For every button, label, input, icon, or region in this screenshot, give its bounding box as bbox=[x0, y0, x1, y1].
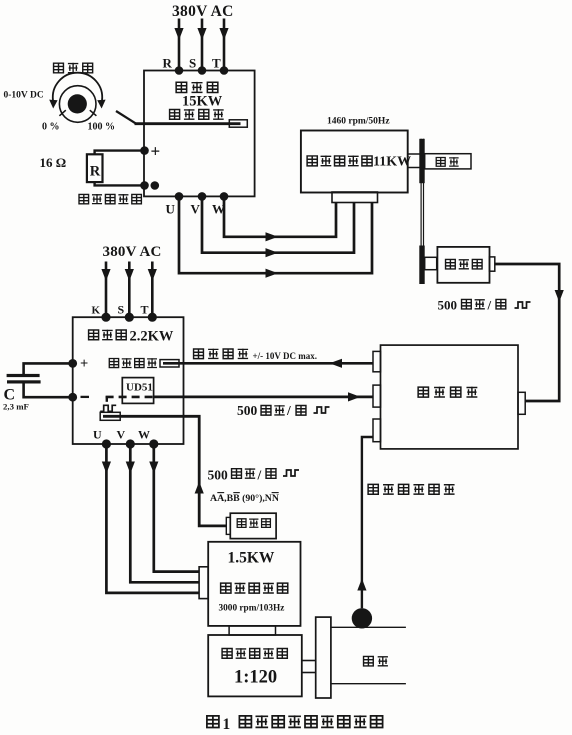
pulley lower bbox=[419, 246, 424, 285]
svg-text:2.2KW: 2.2KW bbox=[130, 329, 174, 345]
node U1-V dot bbox=[198, 192, 207, 201]
motor M1 box 主轴电动机 11KW bbox=[301, 131, 408, 193]
wire reference signal U2 to control unit with left arrow bbox=[163, 359, 373, 368]
svg-text:2,3 mF: 2,3 mF bbox=[3, 402, 29, 412]
label 100 % bbox=[88, 122, 116, 133]
encoder E1 coupling bbox=[425, 257, 437, 269]
resistor R1 (braking resistor) bbox=[87, 154, 103, 182]
control unit left tab 1 bbox=[373, 351, 381, 371]
node R terminal dot bbox=[175, 66, 184, 75]
shaft from M1 to pulley bbox=[408, 154, 425, 168]
motor M2 terminal tab bbox=[199, 567, 208, 599]
label 经轴电动机 bbox=[221, 583, 288, 594]
node U2-V dot bbox=[126, 439, 135, 448]
wire surface speed feedback to control unit with up arrow bbox=[357, 437, 373, 608]
svg-text:S: S bbox=[118, 303, 125, 317]
svg-text:AA,BB (90°),NN: AA,BB (90°),NN bbox=[210, 493, 279, 504]
caption 图1 经编电子送经原理图 bbox=[207, 715, 383, 733]
svg-text:K: K bbox=[92, 305, 101, 317]
pin label + bbox=[151, 142, 161, 161]
pin label W bbox=[212, 202, 225, 217]
wire U1-V to motor M1 with arrow bbox=[202, 196, 354, 257]
svg-text:500: 500 bbox=[208, 468, 229, 483]
label 传动齿轮箱 bbox=[222, 648, 287, 659]
label 经轴 bbox=[364, 656, 388, 666]
wire encoder E2 to U2 with up arrow bbox=[103, 416, 226, 526]
warp beam end flange bbox=[316, 617, 331, 698]
wire U2-U to motor M2 with arrow bbox=[102, 444, 199, 593]
label 控制单元 bbox=[418, 387, 477, 398]
belt line bbox=[421, 139, 423, 284]
svg-text:500: 500 bbox=[438, 298, 458, 313]
svg-text:+/- 10V DC max.: +/- 10V DC max. bbox=[253, 351, 317, 361]
svg-text:+: + bbox=[151, 142, 161, 161]
svg-text:380V AC: 380V AC bbox=[172, 3, 234, 20]
net label 380V AC (second supply) bbox=[103, 244, 162, 260]
label 0 % bbox=[42, 122, 60, 133]
pin label T bbox=[212, 56, 221, 71]
wire R1 top lead to U1 + terminal bbox=[95, 151, 145, 155]
svg-text:1460 rpm/50Hz: 1460 rpm/50Hz bbox=[327, 117, 390, 127]
motor M2 box 1.5KW 经轴电动机 bbox=[208, 542, 300, 626]
svg-text:1:120: 1:120 bbox=[234, 668, 277, 688]
label M1 主轴电动机 11KW bbox=[307, 155, 411, 170]
node U2-W dot bbox=[149, 439, 158, 448]
svg-text:R: R bbox=[163, 56, 173, 71]
label U2 闭环系统 bbox=[109, 358, 157, 368]
label 1:120 bbox=[234, 668, 277, 688]
main shaft label box 主轴 bbox=[425, 154, 471, 169]
svg-text:100 %: 100 % bbox=[88, 122, 116, 133]
label U1 开环系统 bbox=[170, 109, 224, 120]
pin label V (U2) bbox=[117, 428, 126, 442]
pin label V bbox=[191, 202, 201, 217]
pin marker bullet bbox=[151, 181, 160, 190]
inverter U2 box 变频器2.2KW 闭环系统 bbox=[73, 317, 184, 444]
svg-text:W: W bbox=[138, 428, 150, 442]
svg-text:3000 rpm/103Hz: 3000 rpm/103Hz bbox=[219, 604, 285, 614]
svg-text:/: / bbox=[487, 298, 492, 313]
label 0-10V DC bbox=[4, 91, 44, 101]
wire R1 bottom lead to U1 - terminal bbox=[95, 182, 145, 185]
wire U1-U to motor M1 with arrow bbox=[179, 196, 372, 277]
wire phase T into U2 with arrow bbox=[148, 262, 157, 318]
control unit left tab 2 bbox=[373, 385, 381, 407]
wire phase S into U1 with arrow bbox=[197, 19, 206, 71]
node U2-U dot bbox=[102, 439, 111, 448]
U2 encoder input connector bbox=[100, 412, 120, 420]
encoder E2 box 编码器 bbox=[230, 513, 276, 538]
svg-text:UD51: UD51 bbox=[126, 382, 153, 394]
voltmeter inner ring with scale ticks bbox=[59, 86, 96, 123]
label 表面测速反馈 bbox=[368, 484, 454, 495]
svg-text:+: + bbox=[80, 356, 88, 372]
pin label R bbox=[163, 56, 173, 71]
label 制动电阻器 bbox=[79, 194, 141, 204]
inverter U1 box 变频器 15KW 开环系统 bbox=[144, 71, 255, 197]
node U1-U dot bbox=[175, 192, 184, 201]
node T2 terminal dot bbox=[148, 313, 157, 322]
encoder E1 output tab bbox=[490, 257, 495, 271]
svg-text:S: S bbox=[189, 56, 196, 71]
wire phase S into U2 with arrow bbox=[125, 262, 134, 318]
pin label S bbox=[118, 303, 125, 317]
U2 reference connector bbox=[160, 360, 179, 367]
label 1.5KW bbox=[228, 550, 275, 567]
node K terminal dot bbox=[101, 313, 110, 322]
svg-text:V: V bbox=[117, 428, 126, 442]
wire E1 to control unit with down arrow bbox=[495, 264, 564, 401]
svg-text:500: 500 bbox=[237, 403, 258, 418]
wire phase R into U1 with arrow bbox=[174, 19, 183, 71]
motor M1 terminal box tab bbox=[332, 192, 378, 203]
label 基准信号 bbox=[194, 349, 249, 359]
voltmeter knob (filled) bbox=[68, 94, 87, 113]
svg-text:15KW: 15KW bbox=[182, 94, 223, 110]
svg-text:T: T bbox=[141, 303, 149, 317]
control unit left tab 3 bbox=[373, 419, 381, 442]
control unit box 控制单元 bbox=[381, 345, 519, 449]
pin label U (U2) bbox=[93, 428, 102, 442]
node T terminal dot bbox=[220, 66, 229, 75]
label 500脉冲/转 (E1) bbox=[438, 298, 531, 313]
pin label U bbox=[166, 202, 176, 217]
wire pulses to control unit tab2 with right arrow bbox=[154, 392, 373, 401]
wire U1-W to motor M1 with arrow bbox=[224, 196, 336, 241]
pin label S bbox=[189, 56, 196, 71]
svg-text:380V AC: 380V AC bbox=[103, 244, 162, 260]
svg-text:11KW: 11KW bbox=[373, 155, 411, 170]
gearbox output shaft bbox=[302, 661, 316, 673]
label U1 变频器 bbox=[176, 82, 218, 93]
svg-text:0 %: 0 % bbox=[42, 122, 60, 133]
svg-text:/: / bbox=[257, 468, 262, 483]
label 500脉冲/转 (UD51) bbox=[237, 403, 330, 418]
gearbox box 传动齿轮箱 1:120 bbox=[208, 635, 302, 696]
pin label - (U2) bbox=[81, 396, 90, 398]
wire capacitor top lead bbox=[24, 363, 73, 374]
value label 2,3 mF bbox=[3, 402, 29, 412]
svg-text:0-10V DC: 0-10V DC bbox=[4, 91, 44, 101]
voltmeter meter dial arc with end arrows bbox=[49, 73, 105, 109]
wire phase T into U1 with arrow bbox=[219, 19, 228, 71]
coupling M2 to gearbox bbox=[229, 626, 275, 635]
U1 analog speed input connector bbox=[229, 120, 247, 127]
label C bbox=[4, 387, 16, 404]
wire U2-W to motor M2 with arrow bbox=[149, 444, 199, 572]
wire voltmeter output to U1 analog input bbox=[135, 122, 241, 125]
node - terminal dot bbox=[140, 181, 149, 190]
label U2 变频器 2.2KW bbox=[89, 329, 174, 345]
label voltmeter 电压计 bbox=[54, 63, 93, 73]
pin label T bbox=[141, 303, 149, 317]
pulley upper bbox=[419, 139, 424, 183]
node U1-W dot bbox=[220, 192, 229, 201]
svg-text:1: 1 bbox=[223, 716, 231, 733]
svg-text:1.5KW: 1.5KW bbox=[228, 550, 275, 567]
pin label W (U2) bbox=[138, 428, 150, 442]
label 500脉冲/转 (E2) bbox=[208, 468, 300, 483]
control unit right tab bbox=[518, 392, 525, 414]
wire phase K into U2 with arrow bbox=[101, 262, 110, 318]
wire U2-V to motor M2 with arrow bbox=[126, 444, 199, 582]
wire encoder pulses (dashed through UD51) bbox=[106, 396, 154, 402]
node S terminal dot bbox=[198, 66, 207, 75]
pin label K bbox=[92, 305, 101, 317]
U2 encoder input pulse icon bbox=[100, 405, 116, 411]
node U2 - dot bbox=[68, 393, 77, 402]
label 1460 rpm/50Hz bbox=[327, 117, 390, 127]
svg-text:16 Ω: 16 Ω bbox=[40, 155, 67, 170]
surface measuring roller bbox=[352, 608, 372, 628]
node U2 + dot bbox=[68, 359, 77, 368]
encoder E2 input tab bbox=[226, 517, 230, 534]
label +/- 10V DC max. bbox=[253, 351, 317, 361]
warp beam 经轴 outline bbox=[331, 627, 406, 683]
svg-text:R: R bbox=[90, 164, 101, 180]
wire capacitor bottom lead bbox=[24, 384, 73, 398]
voltmeter needle / pointer wire bbox=[116, 111, 136, 123]
svg-text:/: / bbox=[286, 403, 291, 418]
pin label + (U2) bbox=[80, 356, 88, 372]
svg-text:T: T bbox=[212, 56, 221, 71]
node S2 terminal dot bbox=[125, 313, 134, 322]
net label 380V AC (top supply) bbox=[172, 3, 234, 20]
encoder E1 box 编码器 bbox=[437, 247, 489, 283]
capacitor C1 plates bbox=[7, 374, 41, 384]
svg-text:U: U bbox=[93, 428, 102, 442]
node + terminal dot bbox=[140, 146, 149, 155]
label 3000 rpm/103Hz bbox=[219, 604, 285, 614]
label AA,BB (90°),NN encoder channels bbox=[210, 493, 279, 504]
label U1 15KW bbox=[182, 94, 223, 110]
svg-text:V: V bbox=[191, 202, 201, 217]
svg-text:U: U bbox=[166, 202, 176, 217]
resistor value label 16 Ω bbox=[40, 155, 67, 170]
UD51 option card box bbox=[122, 378, 153, 404]
